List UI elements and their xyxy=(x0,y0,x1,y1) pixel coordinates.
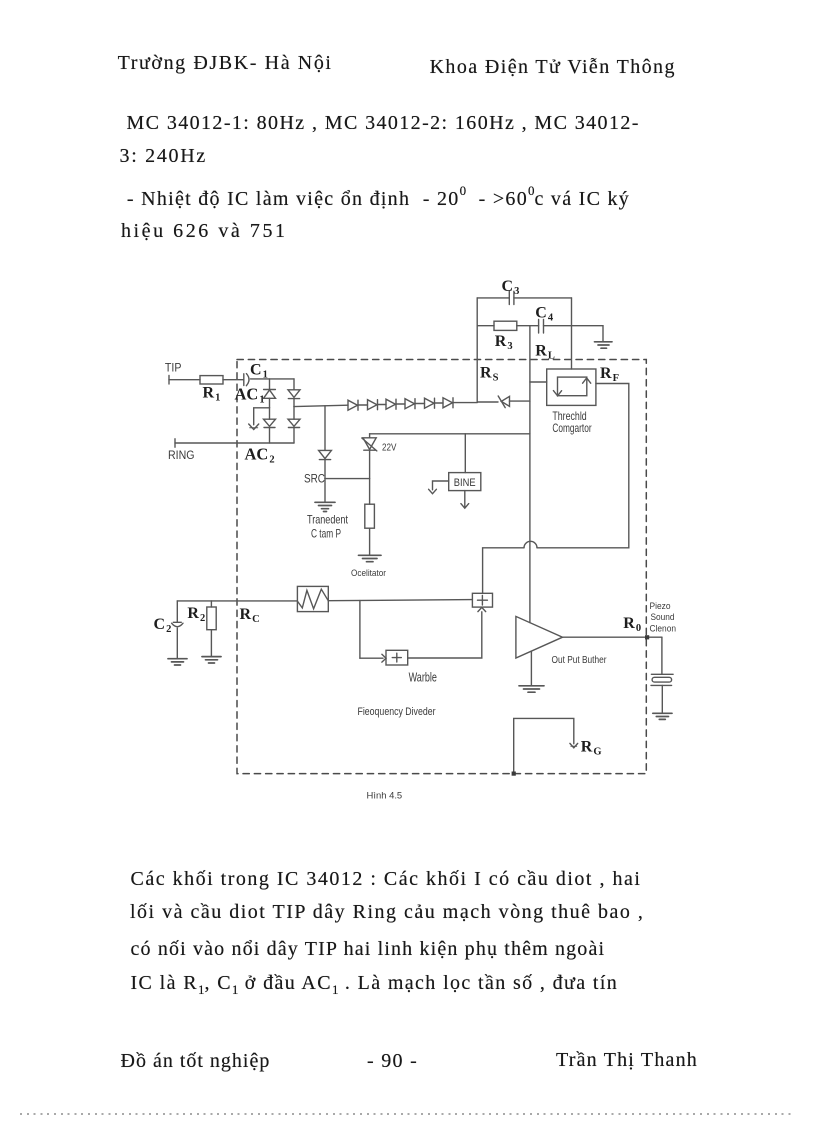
wire D1-D2 xyxy=(358,404,368,406)
junction node R0 xyxy=(645,635,649,639)
ground (op-amp) xyxy=(519,686,544,692)
wire opamp ground stub xyxy=(530,651,532,685)
capacitor C4 xyxy=(538,320,540,334)
diode SRC xyxy=(319,450,332,458)
svg-text:AC2: AC2 xyxy=(245,445,275,466)
svg-text:Warble: Warble xyxy=(409,669,437,684)
wire BINE left arrow xyxy=(433,481,449,490)
ground (SRC) xyxy=(315,502,335,511)
wire RL long vertical xyxy=(529,326,531,623)
wire D4-D5 xyxy=(415,403,425,405)
wire left col to RING xyxy=(269,428,271,444)
svg-text:Ocelitator: Ocelitator xyxy=(351,568,386,579)
diode D6 xyxy=(443,398,453,408)
wire down to comparator top xyxy=(571,298,573,369)
resistor (oscillator) xyxy=(365,504,375,528)
svg-text:22V: 22V xyxy=(382,442,397,453)
wire C3 top left xyxy=(477,297,509,299)
svg-text:RG: RG xyxy=(581,739,602,758)
block BINE xyxy=(449,473,481,491)
wire bridge left column top xyxy=(269,379,271,390)
piezo sounder (crystal) xyxy=(651,673,673,675)
wire zener row xyxy=(370,433,530,435)
capacitor C3 xyxy=(508,291,510,304)
wire comparator input xyxy=(530,381,547,383)
capacitor C1 xyxy=(243,374,245,386)
op-amp output buffer xyxy=(516,616,563,658)
svg-text:C1: C1 xyxy=(250,362,268,381)
ground (R2) xyxy=(202,657,221,663)
svg-text:RL: RL xyxy=(535,342,555,361)
svg-text:RING: RING xyxy=(168,450,195,462)
zener diode 22V xyxy=(369,434,371,438)
wire D5-D6 xyxy=(435,402,444,404)
diode D7 (points left) xyxy=(501,396,509,406)
resistor R3 xyxy=(494,321,517,330)
wire D2-D3 xyxy=(378,404,387,406)
diode D5 xyxy=(425,398,435,408)
ground (C4) xyxy=(595,342,613,348)
arrow RG xyxy=(570,743,578,747)
svg-text:R2: R2 xyxy=(187,605,205,624)
wire diode to SRC node xyxy=(324,460,326,479)
wire RG from bottom border xyxy=(514,718,574,773)
svg-text:TIP: TIP xyxy=(165,362,182,374)
wire to warble adder xyxy=(360,657,383,659)
diode D4 xyxy=(405,399,415,409)
wire left col to bottom diode xyxy=(269,408,271,419)
resistor R1 xyxy=(200,376,223,384)
svg-text:Fieoquency Diveder: Fieoquency Diveder xyxy=(358,706,436,718)
wire SRC node to zener branch xyxy=(325,478,370,480)
wire bridge mid-left stub xyxy=(254,408,270,425)
diode bridge AC1 left-bottom xyxy=(264,419,276,426)
resistor R2 xyxy=(210,601,212,607)
svg-text:Tranedent: Tranedent xyxy=(307,513,348,527)
wire right mid xyxy=(293,399,295,407)
adder (main) xyxy=(472,593,492,607)
wire R1 to C1 xyxy=(223,379,243,381)
wire RC row xyxy=(177,600,297,602)
wire D6 to RS junction xyxy=(453,402,477,404)
wire RING lead tick xyxy=(174,439,176,447)
ground (piezo) xyxy=(653,713,672,719)
wire TIP lead tick xyxy=(168,376,170,385)
wire RING xyxy=(175,442,294,444)
wire bridge right column top xyxy=(293,379,295,390)
wire output R0 xyxy=(563,636,662,638)
svg-text:RC: RC xyxy=(240,606,260,625)
svg-text:R3: R3 xyxy=(495,333,513,352)
wire RS junction to D7 xyxy=(477,401,498,403)
wire C4 to ground xyxy=(544,326,604,342)
dashed IC boundary box xyxy=(237,360,646,774)
svg-text:C3: C3 xyxy=(502,278,520,297)
wire bridge mid to diode chain xyxy=(294,405,348,406)
svg-text:RF: RF xyxy=(600,365,619,384)
wire C3 top right xyxy=(514,297,572,299)
wire oscillator to adder xyxy=(328,600,472,601)
diode D1 xyxy=(348,400,358,410)
diode bridge AC2 right-top xyxy=(288,390,300,398)
wire hop over RL line xyxy=(524,541,537,548)
capacitor C2 xyxy=(176,601,178,622)
wire RS vertical xyxy=(476,298,478,402)
svg-text:SRC: SRC xyxy=(304,473,325,486)
svg-text:C tam P: C tam P xyxy=(311,527,341,541)
svg-text:RS: RS xyxy=(480,364,499,383)
wire SRC node to ground xyxy=(324,479,326,502)
wire warble to adder1 xyxy=(408,612,482,658)
wire R3 to C4 xyxy=(517,325,539,327)
wire D3-D4 xyxy=(396,403,405,405)
svg-text:Clenon: Clenon xyxy=(650,623,677,634)
diode D2 xyxy=(368,400,378,410)
svg-text:Piezo: Piezo xyxy=(650,601,671,612)
wire BINE bottom arrow xyxy=(464,491,466,508)
arrow to ground (bridge left) xyxy=(249,424,259,430)
wire left mid xyxy=(269,398,271,408)
wire zener to resistor xyxy=(369,450,371,504)
wire resistor to ground xyxy=(369,528,371,555)
oscillator block (zigzag) xyxy=(297,586,328,611)
adder (warble) xyxy=(386,650,408,665)
diode bridge AC2 right-bottom xyxy=(288,419,300,426)
wire right col to bottom diode xyxy=(293,407,295,420)
svg-text:AC1: AC1 xyxy=(235,385,265,406)
wire R3 row left xyxy=(477,325,494,327)
wire branch down to warble xyxy=(359,601,361,659)
wire SRC drop from chain xyxy=(324,406,326,451)
svg-text:Sound: Sound xyxy=(651,612,675,623)
wire feedback to adder xyxy=(483,548,524,594)
wire piezo to ground xyxy=(661,685,663,713)
svg-text:R0: R0 xyxy=(623,615,641,634)
svg-text:Hình 4.5: Hình 4.5 xyxy=(367,791,403,802)
wire BINE drop xyxy=(464,434,466,473)
svg-text:C2: C2 xyxy=(154,616,172,635)
svg-text:Out Put Buther: Out Put Buther xyxy=(552,655,607,666)
wire D7 to RL line xyxy=(510,400,530,402)
svg-text:Comgartor: Comgartor xyxy=(552,421,591,435)
wire right col to RING xyxy=(293,428,295,444)
ground (oscillator) xyxy=(359,555,382,561)
svg-text:C4: C4 xyxy=(535,305,554,324)
junction on dashed border xyxy=(512,772,516,776)
svg-text:BINE: BINE xyxy=(454,477,476,489)
wire comparator output feedback xyxy=(537,384,629,548)
wire to piezo xyxy=(661,637,663,674)
wire C1 to bridge top xyxy=(251,378,295,380)
diode D3 xyxy=(386,399,396,409)
diode bridge AC1 left-top xyxy=(264,389,276,391)
wire TIP to R1 xyxy=(169,379,200,381)
ground (C2) xyxy=(168,659,187,665)
op-amp U1 threshold comparator box xyxy=(547,369,596,405)
svg-text:R1: R1 xyxy=(203,385,221,404)
